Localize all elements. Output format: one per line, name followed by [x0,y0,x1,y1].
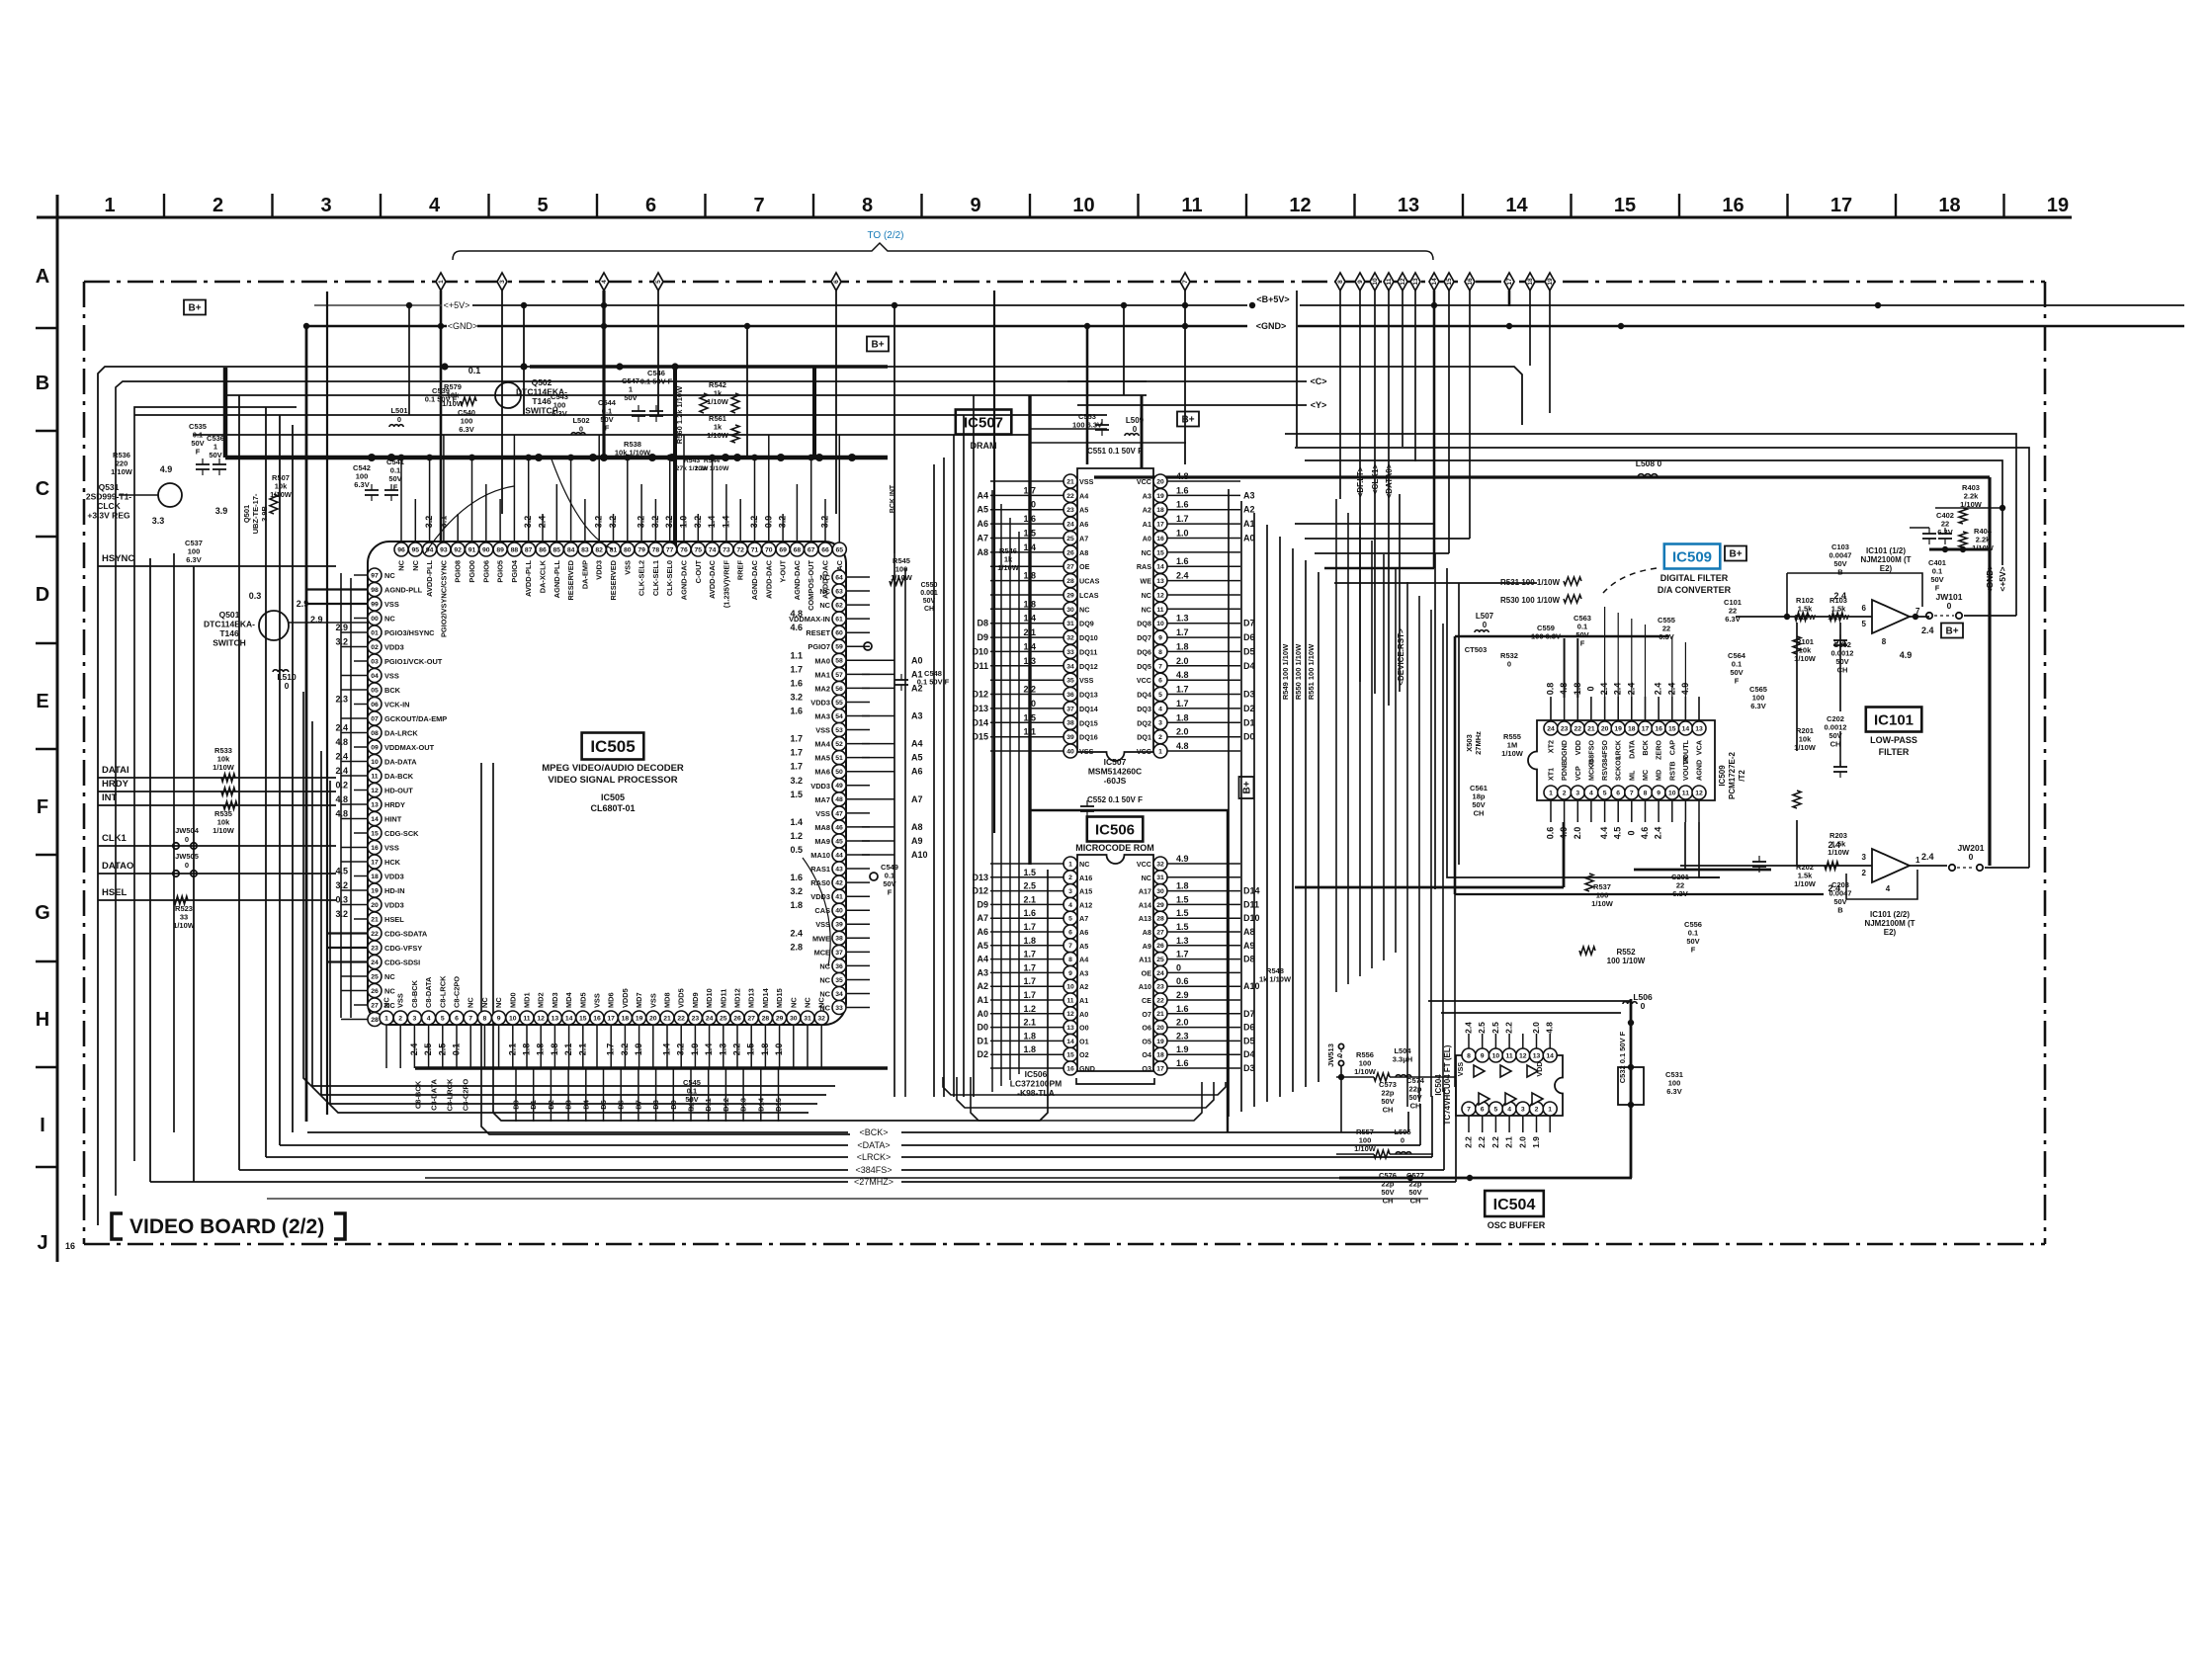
svg-text:DQ9: DQ9 [1079,620,1094,628]
svg-text:A10: A10 [1243,981,1260,991]
svg-text:JW504: JW504 [175,826,200,835]
svg-text:1.7: 1.7 [1023,990,1036,1000]
svg-text:CH: CH [1837,666,1848,675]
svg-text:CT503: CT503 [1465,645,1488,654]
svg-text:F: F [1580,639,1585,648]
svg-text:1.7: 1.7 [1176,699,1189,708]
svg-text:B+: B+ [871,340,884,351]
svg-text:12: 12 [1289,195,1311,216]
svg-text:MD7: MD7 [635,992,643,1008]
svg-text:MA6: MA6 [814,768,830,777]
svg-text:1: 1 [438,280,445,284]
svg-text:0: 0 [285,681,290,691]
svg-text:VDD3: VDD3 [810,699,830,708]
svg-text:15: 15 [1614,195,1636,216]
svg-text:R530 100 1/10W: R530 100 1/10W [1500,596,1560,605]
svg-text:0.6: 0.6 [1176,976,1189,986]
svg-text:33: 33 [1066,649,1074,656]
svg-text:0.9: 0.9 [763,516,773,529]
svg-text:D6: D6 [617,1100,626,1110]
svg-text:1.6: 1.6 [1176,556,1189,566]
svg-text:7: 7 [1467,1106,1471,1113]
svg-text:90: 90 [482,546,490,553]
svg-text:L508 0: L508 0 [1636,458,1662,468]
svg-text:4: 4 [1886,884,1891,893]
svg-text:0.3: 0.3 [249,591,262,601]
svg-text:C551 0.1 50V F: C551 0.1 50V F [1087,447,1143,456]
svg-text:NC: NC [480,997,489,1008]
svg-text:ML: ML [1627,770,1636,781]
svg-text:2.3: 2.3 [1176,1031,1189,1041]
svg-text:3.2: 3.2 [820,516,830,529]
svg-text:A3: A3 [1079,968,1088,977]
svg-text:C: C [36,478,49,500]
svg-text:B+: B+ [188,303,201,314]
svg-text:MA1: MA1 [814,670,830,679]
svg-text:6.3V: 6.3V [186,555,201,564]
svg-text:84: 84 [567,546,575,553]
svg-text:6: 6 [1862,604,1867,613]
svg-text:AVDD-DAC: AVDD-DAC [708,559,717,599]
svg-text:A15: A15 [1079,887,1092,896]
svg-text:DA-BCK: DA-BCK [384,772,414,781]
svg-text:<DATA0>: <DATA0> [1385,463,1394,498]
svg-text:0: 0 [1947,601,1952,611]
svg-text:D12: D12 [722,1098,730,1112]
svg-text:Q531: Q531 [99,482,120,492]
svg-text:28: 28 [371,1017,379,1024]
svg-text:A4: A4 [911,739,923,749]
svg-text:JW505: JW505 [175,852,199,861]
svg-text:8: 8 [483,1015,487,1022]
svg-text:CH: CH [1410,1197,1421,1206]
svg-text:MA8: MA8 [814,823,830,832]
svg-text:CLCK: CLCK [97,501,121,511]
svg-text:E2): E2) [1880,564,1893,573]
svg-text:R552: R552 [1616,948,1636,957]
svg-text:(1.235V)VREF: (1.235V)VREF [722,560,730,609]
svg-text:VSS: VSS [1079,676,1094,685]
svg-text:D5: D5 [1243,1036,1255,1045]
svg-text:RESERVED: RESERVED [609,559,618,600]
svg-text:D5: D5 [599,1100,608,1110]
svg-text:VDD3: VDD3 [384,873,404,881]
svg-text:04: 04 [371,673,379,680]
svg-text:NC: NC [1079,605,1089,614]
svg-text:SCKO3: SCKO3 [1614,756,1623,781]
svg-text:1.8: 1.8 [1176,712,1189,722]
svg-text:08: 08 [371,730,379,737]
svg-text:A5: A5 [911,753,923,763]
svg-text:D13: D13 [739,1098,748,1112]
svg-text:NC: NC [819,976,830,985]
svg-text:63: 63 [835,589,843,596]
svg-text:6.3V: 6.3V [1666,1087,1681,1096]
svg-text:31: 31 [1156,875,1164,881]
svg-text:3.2: 3.2 [424,516,434,529]
svg-text:R550 100 1/10W: R550 100 1/10W [1294,643,1303,700]
svg-text:1/10W: 1/10W [213,826,235,835]
svg-text:A3: A3 [1243,490,1255,500]
svg-text:G: G [35,902,50,924]
svg-text:B+: B+ [1729,549,1742,560]
svg-text:13: 13 [1156,578,1164,585]
svg-text:CLK-SEL1: CLK-SEL1 [651,560,660,596]
svg-text:O4: O4 [1142,1050,1151,1059]
svg-text:D0: D0 [1243,732,1255,742]
svg-text:2: 2 [1535,1106,1539,1113]
svg-text:FILTER: FILTER [1879,747,1910,757]
svg-text:9: 9 [970,195,980,216]
svg-text:MD2: MD2 [537,992,546,1008]
svg-text:50V: 50V [923,598,936,605]
svg-text:D15: D15 [774,1098,783,1112]
svg-text:6.3V: 6.3V [1750,702,1765,710]
svg-text:C8-BCK: C8-BCK [410,979,419,1008]
svg-text:13: 13 [1066,1025,1074,1032]
svg-text:27: 27 [747,1015,755,1022]
svg-text:0: 0 [1969,852,1974,862]
svg-text:87: 87 [525,546,533,553]
svg-text:MD12: MD12 [733,988,742,1008]
svg-text:BCK: BCK [1641,739,1650,755]
svg-text:18: 18 [1938,195,1960,216]
svg-text:95: 95 [412,546,420,553]
svg-text:DATAO: DATAO [102,861,133,872]
svg-text:6: 6 [833,280,840,284]
svg-text:41: 41 [835,894,843,901]
svg-text:0: 0 [1031,500,1036,510]
svg-text:16: 16 [1655,725,1662,732]
svg-text:HINT: HINT [384,815,402,824]
svg-text:DRAM: DRAM [971,441,997,451]
svg-text:O6: O6 [1142,1024,1151,1033]
svg-text:27: 27 [371,1002,379,1009]
svg-text:93: 93 [440,546,448,553]
svg-text:30: 30 [1066,607,1074,614]
svg-text:1.4: 1.4 [721,516,730,529]
svg-text:UCAS: UCAS [1079,577,1100,586]
svg-text:25: 25 [1066,536,1074,542]
svg-text:HRDY: HRDY [102,779,129,790]
svg-text:<DATA>: <DATA> [857,1140,890,1150]
svg-text:1.6: 1.6 [1023,908,1036,918]
svg-text:19: 19 [371,887,379,894]
svg-text:A: A [36,266,49,288]
svg-text:VSS: VSS [1079,747,1094,756]
svg-text:NC: NC [383,997,391,1008]
svg-text:0.1: 0.1 [452,1043,462,1056]
svg-text:78: 78 [652,546,660,553]
svg-text:CH: CH [1383,1106,1394,1115]
svg-text:16: 16 [65,1241,75,1251]
svg-text:VDD: VDD [1535,1061,1544,1076]
svg-text:14: 14 [1066,1039,1074,1045]
svg-text:NC: NC [384,615,395,624]
svg-text:E2): E2) [1884,928,1897,937]
svg-text:1.8: 1.8 [760,1043,770,1056]
svg-text:NJM2100M (T: NJM2100M (T [1864,919,1914,928]
svg-text:7: 7 [753,195,764,216]
svg-text:VSS: VSS [593,993,602,1008]
svg-text:40: 40 [1066,749,1074,756]
svg-text:CAP: CAP [1667,740,1676,755]
svg-text:PGIO7: PGIO7 [808,642,830,651]
svg-text:<DEVICE.RST>: <DEVICE.RST> [1397,628,1405,686]
svg-text:D6: D6 [1243,1023,1255,1033]
svg-text:C8-C2PO: C8-C2PO [462,1079,470,1112]
svg-text:D14: D14 [972,717,988,727]
svg-text:11: 11 [1506,1052,1513,1059]
svg-text:D7: D7 [1243,1009,1255,1019]
svg-text:1.8: 1.8 [522,1043,532,1056]
svg-text:6: 6 [1616,790,1620,796]
svg-text:26: 26 [1156,943,1164,950]
svg-text:1.6: 1.6 [1176,500,1189,510]
svg-text:D2: D2 [1243,704,1255,713]
svg-text:MD1: MD1 [523,992,532,1008]
svg-text:NC: NC [1079,860,1089,869]
svg-text:2.1: 2.1 [563,1043,573,1056]
svg-text:A4: A4 [1079,491,1088,500]
svg-text:71: 71 [751,546,759,553]
svg-text:17: 17 [1830,195,1852,216]
svg-text:7: 7 [1182,280,1189,284]
svg-text:16: 16 [371,845,379,852]
svg-text:F: F [605,424,610,433]
svg-text:ZERO: ZERO [1655,740,1663,760]
svg-text:6: 6 [1481,1106,1485,1113]
svg-text:MD8: MD8 [663,992,672,1008]
svg-text:1.7: 1.7 [790,734,803,744]
svg-text:MA5: MA5 [814,754,830,763]
svg-text:4.8: 4.8 [1176,741,1189,751]
svg-text:1.7: 1.7 [1023,976,1036,986]
svg-text:MA7: MA7 [814,795,830,804]
svg-text:10: 10 [1066,984,1074,991]
svg-text:17: 17 [1156,522,1164,529]
svg-text:D10: D10 [1243,913,1260,923]
svg-text:34: 34 [1066,663,1074,670]
svg-text:<GND>: <GND> [1985,565,1995,594]
svg-text:<CLK1>: <CLK1> [1371,464,1380,495]
svg-text:PDNB: PDNB [1560,761,1569,781]
svg-text:TC74VHCU04 FT (EL): TC74VHCU04 FT (EL) [1443,1044,1452,1125]
svg-text:8: 8 [1068,957,1072,963]
svg-text:NJM2100M (T: NJM2100M (T [1860,555,1911,564]
svg-text:8: 8 [1158,649,1162,656]
svg-text:1.4: 1.4 [1023,542,1036,552]
svg-text:19: 19 [1614,725,1622,732]
svg-text:DQ6: DQ6 [1137,647,1151,656]
svg-text:2.2: 2.2 [1464,1136,1474,1148]
svg-text:0: 0 [1401,1136,1404,1145]
svg-text:62: 62 [835,603,843,610]
svg-text:O3: O3 [1142,1064,1151,1073]
svg-text:DQ5: DQ5 [1137,662,1151,671]
svg-text:AGND-DAC: AGND-DAC [750,559,759,600]
svg-text:16: 16 [1722,195,1744,216]
svg-text:A0: A0 [1243,534,1255,543]
svg-text:1.0: 1.0 [774,1043,784,1056]
svg-text:RAS: RAS [1137,562,1151,571]
svg-text:2.4: 2.4 [1464,1022,1474,1034]
svg-text:50: 50 [835,769,843,776]
svg-text:13: 13 [1695,725,1703,732]
svg-text:6.3V: 6.3V [354,480,369,489]
svg-text:2.4: 2.4 [409,1043,419,1056]
svg-text:F: F [888,888,893,897]
svg-text:CH: CH [1830,740,1841,749]
svg-text:F: F [1691,946,1696,955]
svg-text:NC: NC [384,987,395,996]
svg-text:38: 38 [1066,720,1074,727]
svg-text:3.9B: 3.9B [260,505,269,521]
svg-text:TO (2/2): TO (2/2) [867,230,903,241]
svg-text:2.2: 2.2 [732,1043,742,1056]
svg-text:56: 56 [835,686,843,693]
svg-text:CH: CH [1383,1197,1394,1206]
svg-text:GCKOUT/DA-EMP: GCKOUT/DA-EMP [384,714,447,723]
svg-text:36: 36 [835,963,843,970]
svg-text:VIDEO BOARD (2/2): VIDEO BOARD (2/2) [129,1215,324,1238]
svg-text:MD14: MD14 [761,987,770,1008]
svg-text:B: B [36,373,49,394]
svg-text:+3.3V REG: +3.3V REG [87,511,130,521]
svg-text:4.5: 4.5 [1613,827,1623,840]
svg-text:1: 1 [1068,861,1072,868]
svg-text:73: 73 [723,546,730,553]
svg-text:NC: NC [467,997,475,1008]
svg-text:12: 12 [537,1015,545,1022]
svg-text:PGIO5: PGIO5 [496,560,505,583]
svg-text:03: 03 [371,658,379,665]
svg-text:07: 07 [371,715,379,722]
svg-text:MA4: MA4 [814,740,830,749]
svg-text:<LRCK>: <LRCK> [857,1152,892,1162]
svg-text:11: 11 [1682,790,1689,796]
svg-text:37: 37 [1066,706,1074,712]
svg-text:A0: A0 [1079,1010,1088,1019]
svg-text:DATA: DATA [1627,740,1636,759]
svg-text:10: 10 [1156,621,1164,627]
svg-text:MA0: MA0 [814,656,830,665]
svg-text:4.5: 4.5 [335,867,348,876]
svg-text:13: 13 [371,801,379,808]
svg-text:O7: O7 [1142,1010,1151,1019]
svg-text:F: F [690,1104,695,1113]
svg-text:39: 39 [835,922,843,929]
svg-text:CDG-SDSI: CDG-SDSI [384,959,420,967]
svg-text:Q501: Q501 [242,505,251,523]
svg-text:LC372100PM: LC372100PM [1010,1079,1062,1089]
svg-text:3.2: 3.2 [790,693,803,703]
svg-text:0.001: 0.001 [920,590,938,597]
svg-text:F: F [1935,584,1940,593]
svg-text:NC: NC [804,997,812,1008]
svg-text:05: 05 [371,687,379,694]
svg-text:0: 0 [1626,830,1636,835]
svg-text:3: 3 [1575,790,1579,796]
svg-text:1.6: 1.6 [790,707,803,716]
svg-text:HD-IN: HD-IN [384,886,405,895]
svg-text:WE: WE [1140,577,1151,586]
svg-text:AVDD-PLL: AVDD-PLL [524,560,533,597]
svg-text:384FSO: 384FSO [1600,740,1609,767]
svg-text:06: 06 [371,702,379,708]
svg-text:00: 00 [371,616,379,623]
svg-text:A7: A7 [911,794,923,804]
svg-text:A17: A17 [1139,887,1151,896]
svg-text:3: 3 [1158,720,1162,727]
svg-text:D15: D15 [972,732,988,742]
svg-text:16: 16 [1467,278,1474,286]
svg-text:100 1/10W: 100 1/10W [1607,957,1646,965]
svg-text:MD10: MD10 [705,988,714,1008]
svg-text:10k 1/10W: 10k 1/10W [615,449,651,458]
svg-text:20: 20 [649,1015,657,1022]
svg-text:A2: A2 [1079,982,1088,991]
svg-text:1.7: 1.7 [1023,962,1036,972]
svg-text:NC: NC [819,990,830,999]
svg-text:/T2: /T2 [1738,770,1746,782]
svg-text:CDG-SCK: CDG-SCK [384,829,419,838]
svg-text:68: 68 [794,546,802,553]
svg-text:D7: D7 [1243,619,1255,628]
svg-text:LOW-PASS: LOW-PASS [1870,735,1917,745]
svg-text:1: 1 [1548,1106,1552,1113]
svg-text:RAS0: RAS0 [810,878,830,887]
svg-text:DGND: DGND [1560,740,1569,761]
svg-text:A8: A8 [1143,928,1151,937]
svg-text:NC: NC [494,997,503,1008]
svg-text:3.2: 3.2 [676,1043,686,1056]
svg-text:32: 32 [817,1015,825,1022]
svg-text:1/10W: 1/10W [213,763,235,772]
svg-text:MWE: MWE [812,934,830,943]
svg-text:53: 53 [835,727,843,734]
svg-text:23: 23 [371,945,379,952]
svg-text:-60JS: -60JS [1104,776,1127,786]
svg-text:1.4: 1.4 [1023,614,1036,624]
svg-text:3.9: 3.9 [215,506,228,516]
svg-text:1.6: 1.6 [790,873,803,882]
svg-text:37: 37 [835,950,843,957]
svg-text:D8: D8 [1243,955,1255,964]
svg-text:7: 7 [1158,663,1162,670]
svg-text:4.8: 4.8 [1176,670,1189,680]
svg-text:7: 7 [468,1015,472,1022]
svg-text:DA-LRCK: DA-LRCK [384,729,418,738]
svg-text:15: 15 [1668,725,1676,732]
svg-text:CH: CH [924,606,934,613]
svg-text:HSEL: HSEL [102,887,128,898]
svg-text:PGIO2/VSYNC/CSYNC: PGIO2/VSYNC/CSYNC [439,559,448,637]
svg-text:23: 23 [692,1015,700,1022]
svg-text:64: 64 [835,574,843,581]
svg-text:3.2: 3.2 [335,909,348,919]
svg-text:1k 1/10W: 1k 1/10W [1259,975,1292,984]
svg-text:1.0: 1.0 [679,516,689,529]
svg-text:1.6: 1.6 [1176,1058,1189,1068]
svg-text:1.8: 1.8 [1023,571,1036,581]
svg-text:6: 6 [645,195,656,216]
svg-text:A3: A3 [977,967,988,977]
svg-text:MD9: MD9 [691,992,700,1008]
svg-text:1.8: 1.8 [1023,936,1036,946]
svg-text:6.3V: 6.3V [552,409,566,418]
svg-text:A1: A1 [1143,520,1151,529]
